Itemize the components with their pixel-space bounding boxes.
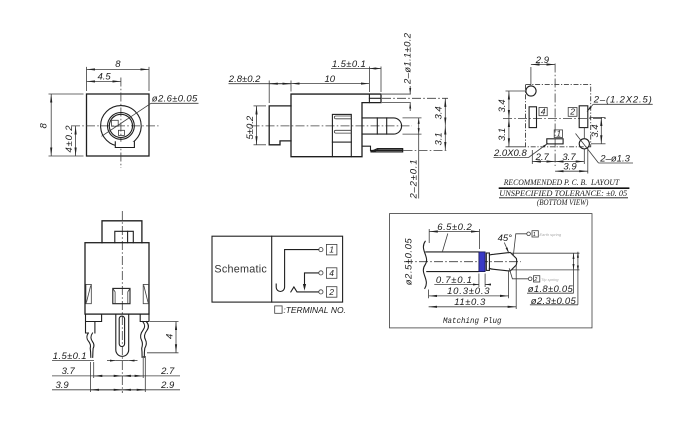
view2 bottom step [362, 146, 378, 150]
svg-text:1: 1 [556, 128, 561, 138]
svg-text:3.9: 3.9 [563, 162, 577, 173]
view3 pad pin4 [529, 107, 536, 128]
dim 1.5±0.1: arrows [107, 360, 116, 362]
view1 horizontal centerline [71, 125, 159, 127]
view4 left crimp pin [87, 333, 91, 357]
view4 left notch [86, 284, 91, 303]
svg-text:Matching Plug: Matching Plug [443, 317, 502, 326]
svg-text:1.5±0.1: 1.5±0.1 [53, 351, 87, 362]
dim 3.4/3.1 right: dim line [444, 98, 446, 126]
view2 contact fork bottom slot [334, 130, 351, 133]
view4 center pin slot [119, 316, 124, 346]
svg-text:4.5: 4.5 [98, 72, 112, 83]
plug border box [390, 214, 593, 328]
leader 2.0X0.8 [494, 157, 529, 159]
dim 1.5±0.1: leader + dim [331, 68, 369, 70]
view4 bottom ext lines [93, 362, 95, 378]
view2 body outline [291, 94, 381, 157]
dim ø2.3: dim line [577, 252, 579, 272]
view2 pin inner lines [376, 118, 378, 134]
view1 contact window B [118, 130, 124, 135]
view4 main body [85, 243, 149, 314]
dim ø1.8/ø2.3: ext lines [511, 252, 580, 254]
plug ring [486, 253, 489, 270]
svg-text:2–(1.2X2.5): 2–(1.2X2.5) [593, 95, 652, 106]
view2 contact block legs [331, 142, 333, 157]
view4 vertical centerline [121, 211, 123, 393]
terminal2 marker circle [528, 277, 532, 281]
svg-text:2.8±0.2: 2.8±0.2 [228, 74, 261, 85]
view2 bottom lug [371, 149, 403, 152]
svg-text:8: 8 [115, 59, 121, 70]
dim 2.9: dim line [531, 64, 555, 66]
svg-text:2.9: 2.9 [535, 55, 550, 66]
schematic terminal 4 circle [319, 271, 323, 275]
dim 3.9 bottom: dim line [555, 170, 588, 172]
svg-text:45°: 45° [498, 233, 513, 244]
dim 10: dim line [291, 83, 369, 85]
view2 lug centerline ext [404, 149, 449, 151]
dim 4: ext lines [150, 321, 179, 323]
view2 pin centerline ext [382, 97, 448, 99]
plug shaft top [426, 251, 479, 253]
schematic terminal 1 box [326, 244, 337, 255]
view3 ext pad2 to circle [583, 128, 585, 139]
view3 component outline (chain rect) [526, 85, 591, 147]
view3 horizontal centerline [503, 117, 608, 119]
svg-text:4: 4 [541, 106, 546, 116]
dim 2.7: dim line [122, 375, 180, 377]
dim 3.4/3.1 left: dim lines [508, 91, 510, 118]
view4 center cup [113, 288, 130, 303]
terminal1 marker leader [513, 234, 526, 256]
note underline [499, 197, 628, 199]
leader ø2.6±0.05 [102, 103, 152, 136]
view4 right notch [143, 284, 148, 303]
view3 pad pin1 [547, 139, 563, 144]
schematic pin4 arrow [303, 284, 306, 291]
svg-text:1: 1 [329, 245, 334, 255]
schematic pin2 wire with switch bump [291, 287, 319, 292]
svg-text:3.1: 3.1 [434, 132, 445, 145]
view1 contact window A [112, 120, 119, 126]
view3 label box 2 [568, 108, 577, 117]
view4 top block [102, 221, 142, 243]
schematic terminal 2 circle [319, 290, 323, 294]
svg-text:6.5±0.2: 6.5±0.2 [437, 222, 472, 233]
view2 tab left inner edge [368, 94, 370, 103]
svg-text:4: 4 [329, 268, 334, 278]
svg-text:4: 4 [164, 334, 175, 339]
svg-text:2: 2 [569, 107, 575, 117]
view3 label box 4 [539, 108, 547, 116]
svg-text:1.5±0.1: 1.5±0.1 [332, 59, 366, 70]
svg-text:ø2.5±0.05: ø2.5±0.05 [404, 238, 415, 286]
dim 3.4 left: ext lines [506, 90, 527, 92]
dim 10.3±0.3: dim line [429, 295, 509, 297]
dim 2.9: dim line [122, 389, 180, 391]
view4 center pin outer [116, 314, 129, 356]
view2 centerline [251, 125, 413, 127]
leader 2-ø1.3 [599, 162, 634, 164]
svg-text:RECOMMENDED P. C. B. LAYOUT: RECOMMENDED P. C. B. LAYOUT [503, 177, 620, 187]
view1 inner ring inner [109, 114, 132, 137]
view4 right crimp pin [144, 322, 148, 358]
dim 5±0.2: dim line [256, 106, 258, 145]
dim 5±0.2: ext lines [254, 105, 267, 107]
svg-text:10: 10 [325, 74, 336, 85]
dim 6.5±0.2: ext lines [428, 229, 430, 243]
view3 hole bottom-right [579, 139, 589, 149]
view4 left shoulder [86, 314, 102, 333]
schematic outer box [212, 236, 343, 302]
svg-text:2–ø1.3: 2–ø1.3 [599, 153, 630, 164]
svg-text:2–2±0.1: 2–2±0.1 [409, 160, 420, 200]
view3 hole top-left [526, 86, 536, 96]
svg-text:2: 2 [328, 287, 334, 297]
dim 2-2±0.1: pin ext lines [403, 117, 422, 119]
svg-text:2.0X0.8: 2.0X0.8 [493, 148, 527, 159]
svg-text:3.4: 3.4 [497, 99, 508, 112]
svg-text:3.4: 3.4 [434, 106, 445, 119]
svg-text:ø2.6±0.05: ø2.6±0.05 [152, 94, 198, 105]
dim 8 top: extension lines [86, 67, 88, 91]
dim 3.4 right: dim line [600, 117, 602, 143]
svg-text:1: 1 [533, 232, 536, 238]
schematic pin4 wire [305, 273, 319, 285]
view1 body square [87, 94, 150, 156]
dim 2.7/3.7 bottom: ext lines [531, 150, 533, 164]
dim 2.8±0.2: dim+leader line [229, 83, 292, 85]
svg-text:2.9: 2.9 [160, 380, 175, 391]
dim 2-2±0.1: dim line [418, 118, 420, 134]
plug tip [489, 252, 516, 271]
svg-text:(BOTTOM VIEW): (BOTTOM VIEW) [537, 197, 589, 207]
schematic terminal 4 box [326, 268, 337, 279]
svg-text:0.7±0.1: 0.7±0.1 [436, 275, 472, 286]
plug centerline [404, 261, 521, 263]
legend terminal square [275, 306, 282, 313]
dim 3.4 right: ext lines [590, 116, 606, 118]
svg-text:4±0.2: 4±0.2 [64, 125, 75, 153]
dim 2.8±0.2: ext lines [268, 81, 270, 104]
svg-text:Earth spring: Earth spring [540, 232, 562, 237]
view2 tab mid line [369, 97, 381, 99]
svg-text:3.4: 3.4 [590, 124, 601, 137]
shaft leader tick [443, 234, 448, 252]
dim 4±0.2: dimension line [75, 126, 77, 156]
svg-text:2.7: 2.7 [160, 366, 175, 377]
dim 2.9: ext line [530, 67, 532, 85]
leader 2-(1.2X2.5) [593, 103, 653, 105]
svg-text:5±0.2: 5±0.2 [245, 115, 256, 139]
dim 2-ø1.1±0.2: arrows [409, 86, 411, 94]
plug break squiggle [423, 241, 426, 288]
schematic terminal 2 box [326, 287, 337, 298]
svg-text:2–ø1.1±0.2: 2–ø1.1±0.2 [402, 32, 413, 85]
view2 barrel [269, 106, 291, 145]
dim 0.7±0.1: arrows [476, 284, 479, 286]
dim 8 left: extension lines [49, 93, 84, 95]
view3 pad pin2 [579, 106, 588, 128]
view1 bottom tab [115, 142, 134, 148]
leader 45 deg [504, 243, 509, 254]
terminal2 marker box [534, 276, 540, 282]
dim 11±0.3: ext line [515, 264, 517, 310]
view4 right shoulder [140, 314, 149, 321]
svg-text:3.7: 3.7 [62, 366, 76, 377]
dim 10.3±0.3: ext line [428, 290, 430, 299]
dim 3.9: dim line [52, 389, 122, 391]
dim 3.7: dim line [52, 375, 122, 377]
svg-text:3.1: 3.1 [497, 128, 508, 141]
svg-text:10.3±0.3: 10.3±0.3 [447, 286, 490, 297]
view4 top block notch [115, 231, 134, 242]
terminal1 marker circle [527, 232, 531, 236]
dim 2.7/3.7 bottom: dim lines [532, 161, 555, 163]
plug shaft bottom [427, 271, 479, 273]
dim 6.5±0.2: dim line [429, 231, 479, 233]
dim 8 left: dimension line [50, 94, 52, 156]
dim 8 top: dimension line [87, 68, 150, 70]
view3 vertical centerline [554, 64, 556, 167]
terminal2 marker leader [509, 268, 528, 279]
dim 11±0.3: dim line [429, 306, 517, 308]
schematic terminal 1 circle [319, 248, 323, 252]
dim 2-ø1.1±0.2: pin ext lines [382, 93, 411, 95]
view2 center round pin [362, 118, 402, 134]
note separator line [499, 187, 630, 189]
dim 1.5±0.1: ext lines [368, 67, 370, 93]
dim ø1.8: dim line [573, 253, 575, 270]
svg-text:11±0.3: 11±0.3 [454, 297, 486, 308]
view2 inner contact block [332, 114, 351, 142]
dim 0.7±0.1: leader [434, 284, 475, 286]
svg-text:Schematic: Schematic [214, 263, 267, 275]
view3 label box 1 [554, 130, 562, 138]
schematic tip spring wire (J hook) [276, 250, 319, 292]
svg-text:3.9: 3.9 [56, 380, 70, 391]
view1 vertical centerline [120, 78, 122, 169]
svg-text:2.7: 2.7 [535, 152, 550, 163]
view1 inner ring outer [108, 113, 135, 140]
svg-text:2: 2 [533, 277, 537, 283]
schematic divider [271, 236, 273, 302]
svg-text::TERMINAL NO.: :TERMINAL NO. [283, 305, 346, 315]
dim 4.5: dimension line [87, 80, 121, 82]
dim 4: dim line [175, 322, 177, 353]
plug insulator band (blue) [479, 252, 485, 272]
view1 outer circle [101, 106, 142, 147]
svg-text:8: 8 [39, 123, 50, 129]
dim 1.5±0.1: leader [52, 360, 94, 362]
terminal1 marker box [532, 231, 538, 237]
dim 0.7±0.1: ext lines [478, 274, 480, 288]
svg-text:Tip spring: Tip spring [541, 277, 559, 282]
view2 contact fork top slot [334, 116, 351, 119]
